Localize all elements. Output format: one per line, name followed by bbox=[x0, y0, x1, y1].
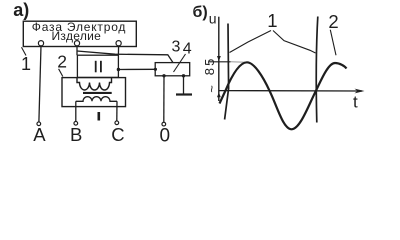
svg-text:В: В bbox=[70, 124, 82, 145]
workpiece terminal circle (right) bbox=[116, 41, 121, 46]
dimension arrow down to 85 level bbox=[217, 56, 221, 61]
junction on box II right edge bbox=[117, 68, 120, 71]
svg-text:0: 0 bbox=[160, 126, 171, 145]
oscillator pulse 1 bbox=[225, 24, 229, 120]
wire top horizontal to spark gap bbox=[77, 51, 173, 63]
svg-text:А: А bbox=[33, 124, 46, 145]
svg-text:t: t bbox=[353, 92, 358, 111]
85 level tick bbox=[209, 61, 231, 63]
pointer label 1 to pulse 2 bbox=[273, 31, 316, 54]
electrode terminal circle (middle) bbox=[74, 41, 79, 46]
wire box II to spark-gap box bbox=[118, 68, 155, 70]
phase terminal circle (left) bbox=[38, 41, 43, 46]
terminal 0 circle bbox=[162, 122, 166, 126]
svg-text:2: 2 bbox=[57, 51, 67, 71]
oscillator pulse 2 bbox=[316, 17, 318, 123]
pointer of label 2 bbox=[59, 69, 63, 77]
wire electrode terminal down to box II bbox=[76, 46, 78, 55]
svg-text:85: 85 bbox=[202, 56, 217, 75]
svg-text:С: С bbox=[111, 124, 124, 145]
svg-text:4: 4 bbox=[183, 41, 192, 58]
faint guide to sine peak bbox=[231, 61, 247, 64]
ground bbox=[176, 93, 192, 95]
label II bar 2 bbox=[100, 61, 102, 73]
svg-text:а): а) bbox=[13, 0, 29, 20]
t axis arrowhead bbox=[355, 89, 365, 94]
wire primary to terminal B bbox=[75, 101, 77, 121]
wire spark gap to ground bbox=[183, 76, 185, 94]
junction on spark gap bottom left bbox=[162, 74, 165, 77]
transformer core bbox=[83, 92, 112, 94]
svg-text:u: u bbox=[209, 11, 217, 27]
terminal B circle bbox=[74, 121, 78, 125]
svg-text:3: 3 bbox=[172, 39, 181, 56]
junction on spark-gap box left edge bbox=[154, 68, 157, 71]
terminal A circle bbox=[37, 122, 41, 126]
svg-text:~: ~ bbox=[204, 85, 219, 93]
wire phase to terminal A bbox=[39, 46, 41, 122]
wire spark gap to terminal 0 bbox=[163, 76, 165, 122]
svg-text:1: 1 bbox=[21, 54, 31, 74]
pointer label 1 to pulse 1 bbox=[230, 31, 272, 53]
pointer label 2 to sine bbox=[330, 30, 336, 56]
U axis bbox=[218, 17, 220, 101]
junction on spark gap bottom right bbox=[182, 74, 185, 77]
wire primary to terminal C bbox=[116, 101, 118, 120]
svg-text:1: 1 bbox=[267, 10, 277, 31]
t axis bbox=[219, 90, 362, 92]
secondary coil (upper, arcs down) bbox=[77, 78, 112, 90]
label I (primary) bbox=[98, 112, 101, 121]
transformer box bbox=[62, 78, 126, 107]
dimension arrow up to t axis bbox=[217, 92, 221, 97]
svg-text:2: 2 bbox=[328, 11, 338, 32]
terminal C circle bbox=[115, 121, 119, 125]
welding voltage sine curve bbox=[220, 62, 347, 129]
spark gap box bbox=[155, 63, 190, 76]
svg-text:б): б) bbox=[193, 4, 208, 21]
terminal box (Фаза Электрод Изделие) bbox=[23, 21, 136, 46]
pointer of label 1 bbox=[22, 47, 27, 55]
label II bar 1 bbox=[95, 61, 97, 73]
box II (secondary winding unit) bbox=[77, 55, 118, 77]
pointer of label 4 bbox=[174, 54, 186, 72]
primary coil (lower, arcs up) bbox=[76, 97, 117, 102]
wire workpiece terminal down to box II bbox=[117, 46, 119, 55]
